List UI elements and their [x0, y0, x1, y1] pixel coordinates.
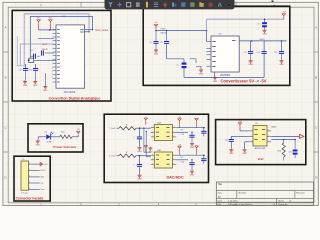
- svg-text:GND: GND: [190, 147, 195, 149]
- svg-text:C7: C7: [176, 65, 178, 67]
- svg-text:1: 1: [29, 163, 30, 165]
- svg-text:GND: GND: [33, 85, 38, 87]
- svg-text:>: >: [173, 158, 174, 161]
- svg-text:LM2662M: LM2662M: [220, 75, 230, 77]
- svg-text:2: 2: [29, 169, 30, 171]
- svg-text:GND: GND: [148, 151, 153, 153]
- svg-text:LED3: LED3: [47, 142, 52, 144]
- svg-text:T_Out2: T_Out2: [109, 155, 117, 158]
- svg-text:Vout: Vout: [41, 188, 45, 191]
- svg-text:<: <: [251, 129, 252, 132]
- svg-text:3: 3: [29, 176, 30, 178]
- svg-text:R16: R16: [278, 151, 281, 153]
- svg-text:>: >: [173, 130, 174, 133]
- svg-text:B: B: [4, 76, 6, 80]
- svg-text:>: >: [268, 140, 269, 143]
- svg-text:Vref: Vref: [258, 157, 265, 161]
- svg-text:4: 4: [29, 182, 30, 184]
- svg-text:Sheet: Sheet: [278, 200, 284, 203]
- svg-text:Revision: Revision: [296, 192, 305, 194]
- svg-text:C13: C13: [225, 140, 228, 142]
- svg-text:1*5 pin: 1*5 pin: [21, 192, 27, 194]
- svg-text:C10: C10: [257, 52, 260, 54]
- svg-text:<: <: [152, 125, 153, 128]
- svg-text:Power Indicator: Power Indicator: [53, 145, 77, 149]
- svg-text:ADR421AR: ADR421AR: [255, 147, 266, 150]
- svg-text:File:: File:: [218, 204, 222, 206]
- svg-text:Convertisseur 5V -> -5V: Convertisseur 5V -> -5V: [220, 78, 266, 83]
- svg-text:<: <: [251, 134, 252, 137]
- svg-text:A: A: [217, 2, 222, 9]
- svg-text:GND: GND: [154, 53, 159, 55]
- svg-text:Title: Title: [218, 183, 223, 186]
- svg-text:>: >: [173, 153, 174, 156]
- svg-text:Number: Number: [239, 191, 247, 194]
- svg-text:GND: GND: [262, 34, 267, 36]
- svg-text:GND: GND: [199, 73, 204, 75]
- svg-text:GND: GND: [279, 64, 284, 66]
- svg-text:D:\Projets\..\Carte.SchDoc: D:\Projets\..\Carte.SchDoc: [228, 203, 252, 206]
- svg-text:REFP: REFP: [42, 44, 48, 46]
- svg-text:P5V0: P5V0: [161, 28, 166, 30]
- svg-text:SDI: SDI: [41, 177, 45, 179]
- svg-text:GND: GND: [242, 153, 247, 155]
- svg-text:C5: C5: [149, 42, 151, 44]
- svg-text:7-12-2010: 7-12-2010: [228, 201, 238, 203]
- svg-text:N5V0: N5V0: [260, 39, 265, 41]
- svg-text:>: >: [173, 162, 174, 165]
- svg-text:<: <: [152, 135, 153, 138]
- svg-text:DAC/ADC: DAC/ADC: [166, 175, 183, 179]
- svg-text:>: >: [173, 125, 174, 128]
- svg-text:<: <: [152, 162, 153, 165]
- svg-text:>: >: [173, 135, 174, 138]
- svg-text:<: <: [251, 140, 252, 143]
- svg-text:C10: C10: [19, 70, 22, 72]
- svg-text:U1B: U1B: [157, 150, 162, 152]
- svg-text:DAC1220E: DAC1220E: [64, 91, 76, 94]
- svg-text:C15: C15: [288, 152, 291, 154]
- svg-text:B: B: [315, 76, 317, 80]
- svg-text:GND: GND: [137, 179, 142, 181]
- svg-text:<: <: [152, 158, 153, 161]
- svg-text:C14: C14: [181, 134, 184, 136]
- svg-text:1: 1: [40, 203, 42, 207]
- svg-text:Drawn By:: Drawn By:: [278, 203, 288, 206]
- svg-text:GND: GND: [23, 85, 28, 87]
- svg-text:GND: GND: [36, 144, 41, 146]
- svg-text:GND: GND: [190, 175, 195, 177]
- svg-text:>: >: [268, 129, 269, 132]
- svg-text:3: 3: [195, 203, 197, 207]
- svg-text:2: 2: [118, 203, 120, 207]
- svg-text:Connector Facade: Connector Facade: [16, 196, 44, 200]
- svg-text:D4: D4: [45, 132, 47, 134]
- svg-text:GND: GND: [137, 151, 142, 153]
- svg-text:Convertion Digital-Analogique: Convertion Digital-Analogique: [49, 97, 101, 101]
- svg-text:R12: R12: [61, 132, 64, 134]
- svg-text:4: 4: [273, 203, 275, 207]
- svg-text:GND: GND: [229, 153, 234, 155]
- svg-text:U1A: U1A: [157, 121, 162, 124]
- svg-text:C9: C9: [244, 52, 246, 54]
- svg-text:5: 5: [29, 188, 30, 190]
- svg-text:GND: GND: [248, 64, 253, 66]
- svg-text:C8: C8: [257, 24, 259, 26]
- svg-text:C11: C11: [274, 52, 277, 54]
- svg-text:T_Out1: T_Out1: [109, 127, 117, 130]
- svg-text:>: >: [268, 134, 269, 137]
- svg-text:SCLK: SCLK: [41, 170, 47, 172]
- svg-text:Date:: Date:: [218, 200, 223, 203]
- svg-text:<: <: [152, 130, 153, 133]
- svg-text:C12: C12: [30, 50, 33, 52]
- svg-text:1: 1: [40, 3, 42, 7]
- svg-text:GND: GND: [213, 81, 218, 83]
- svg-text:DAC_output: DAC_output: [96, 29, 109, 32]
- svg-text:C6: C6: [160, 42, 162, 44]
- svg-text:GND: GND: [43, 90, 48, 92]
- svg-text:C14: C14: [181, 162, 184, 164]
- svg-text:C11: C11: [29, 70, 32, 72]
